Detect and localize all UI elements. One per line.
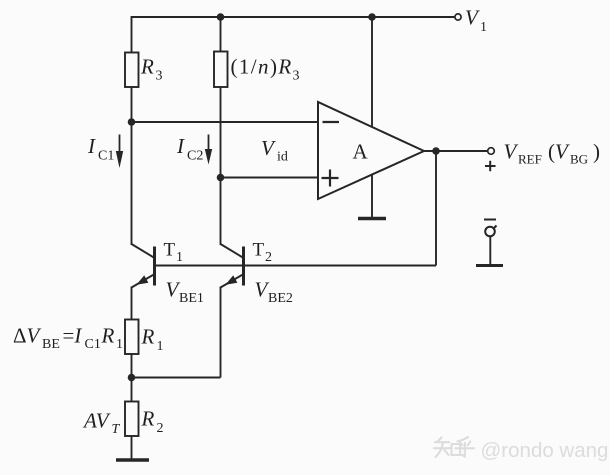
svg-text:T: T xyxy=(253,240,265,261)
svg-text:AV: AV xyxy=(82,409,111,433)
svg-text:BE1: BE1 xyxy=(179,291,204,306)
svg-text:3: 3 xyxy=(156,69,163,84)
svg-text:R: R xyxy=(101,324,115,348)
svg-text:C1: C1 xyxy=(85,337,101,352)
svg-text:2: 2 xyxy=(265,250,272,265)
svg-text:V: V xyxy=(261,136,276,160)
svg-text:C1: C1 xyxy=(98,149,114,164)
svg-text:=I: =I xyxy=(63,324,83,348)
svg-text:REF: REF xyxy=(518,152,542,167)
svg-text:A: A xyxy=(353,140,369,164)
svg-text:1: 1 xyxy=(176,250,183,265)
svg-text:BG: BG xyxy=(570,152,588,167)
svg-text:ΔV: ΔV xyxy=(13,324,42,348)
svg-text:R: R xyxy=(141,407,155,431)
svg-text:3: 3 xyxy=(293,69,300,84)
svg-text:1: 1 xyxy=(116,337,123,352)
svg-text:V: V xyxy=(555,140,570,164)
svg-text:T: T xyxy=(164,240,176,261)
svg-text:2: 2 xyxy=(157,421,164,436)
svg-text:(: ( xyxy=(548,140,555,164)
svg-text:V: V xyxy=(465,6,480,30)
svg-text:T: T xyxy=(112,422,121,437)
svg-text:1: 1 xyxy=(480,20,487,35)
svg-text:1: 1 xyxy=(157,339,164,354)
svg-text:BE2: BE2 xyxy=(268,291,293,306)
svg-text:BE: BE xyxy=(42,337,60,352)
svg-text:R: R xyxy=(141,325,155,349)
svg-text:I: I xyxy=(176,134,185,158)
svg-text:@rondo wang: @rondo wang xyxy=(481,439,609,462)
svg-text:id: id xyxy=(277,150,288,165)
svg-text:C2: C2 xyxy=(187,149,203,164)
svg-text:V: V xyxy=(504,140,519,164)
svg-text:R: R xyxy=(140,55,154,79)
svg-text:I: I xyxy=(87,134,96,158)
svg-text:(1/n)R: (1/n)R xyxy=(231,55,293,79)
svg-text:): ) xyxy=(593,140,600,164)
